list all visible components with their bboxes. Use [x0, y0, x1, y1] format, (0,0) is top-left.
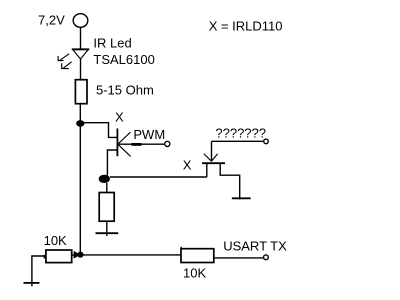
ground of R2 [96, 232, 119, 234]
wire R3 to node C [72, 254, 74, 256]
transistor Q2 gate vertical wire [211, 141, 213, 161]
transistor Q1 body bar [116, 129, 118, 157]
arrowhead into node C [74, 251, 81, 259]
terminal circle ??????? [264, 139, 269, 144]
nub at R3 left edge [44, 255, 47, 259]
transistor Q2 drain wire to ground [220, 163, 240, 199]
svg-text:X = IRLD110: X = IRLD110 [209, 19, 283, 34]
svg-text:7,2V: 7,2V [38, 13, 65, 28]
junction node A [76, 120, 84, 127]
svg-text:USART TX: USART TX [223, 238, 287, 253]
transistor Q2 body bar [202, 162, 225, 164]
wire R3 left lead [32, 256, 46, 283]
wire node B to Q2 [110, 176, 207, 178]
svg-text:IR Led: IR Led [93, 36, 131, 51]
svg-text:???????: ??????? [215, 126, 266, 141]
transistor Q1 gate arrow [118, 132, 131, 156]
thick retrace on gate wire [132, 143, 142, 146]
wire R4 to USART TX terminal [214, 257, 264, 259]
resistor R1 [75, 80, 87, 104]
transistor Q2 source stub [206, 163, 208, 177]
ground of Q2 [232, 197, 251, 199]
LED D1 TSAL6100 [72, 49, 89, 59]
svg-text:5-15 Ohm: 5-15 Ohm [96, 83, 154, 98]
wire node C to R4 [80, 254, 181, 256]
ground of R3 [24, 283, 40, 286]
LED emission arrow 2 [62, 62, 72, 69]
USART TX terminal circle [264, 255, 269, 260]
svg-text:X: X [115, 110, 124, 125]
wire R1 down to bottom node [79, 104, 81, 255]
resistor R4 10K [181, 249, 214, 263]
tick at R3 right edge [71, 250, 73, 256]
resistor R2 [99, 193, 114, 222]
PWM terminal circle [165, 141, 170, 146]
wire node A to Q1 drain [80, 123, 116, 138]
junction node B [99, 175, 110, 183]
wire terminal to LED [80, 27, 82, 49]
power terminal 7,2V circle [73, 14, 88, 28]
svg-text:10K: 10K [44, 233, 67, 248]
svg-text:TSAL6100: TSAL6100 [93, 52, 154, 67]
junction node C [77, 252, 83, 258]
svg-text:X: X [183, 157, 192, 172]
svg-text:PWM: PWM [133, 127, 165, 142]
wire Q1 gate to PWM terminal [118, 143, 165, 145]
wire node B to R2 [106, 183, 108, 193]
wire R2 to ground [106, 221, 108, 236]
LED emission arrow 1 [58, 54, 69, 61]
svg-text:10K: 10K [183, 265, 206, 280]
wire Q2 gate to ??????? terminal [212, 140, 265, 142]
tick at R4 top-left [180, 247, 182, 250]
wire LED to R1 [80, 59, 82, 80]
resistor R3 10K [46, 250, 72, 263]
transistor Q1 source wire [107, 150, 117, 177]
transistor Q2 gate arrow [204, 154, 218, 162]
